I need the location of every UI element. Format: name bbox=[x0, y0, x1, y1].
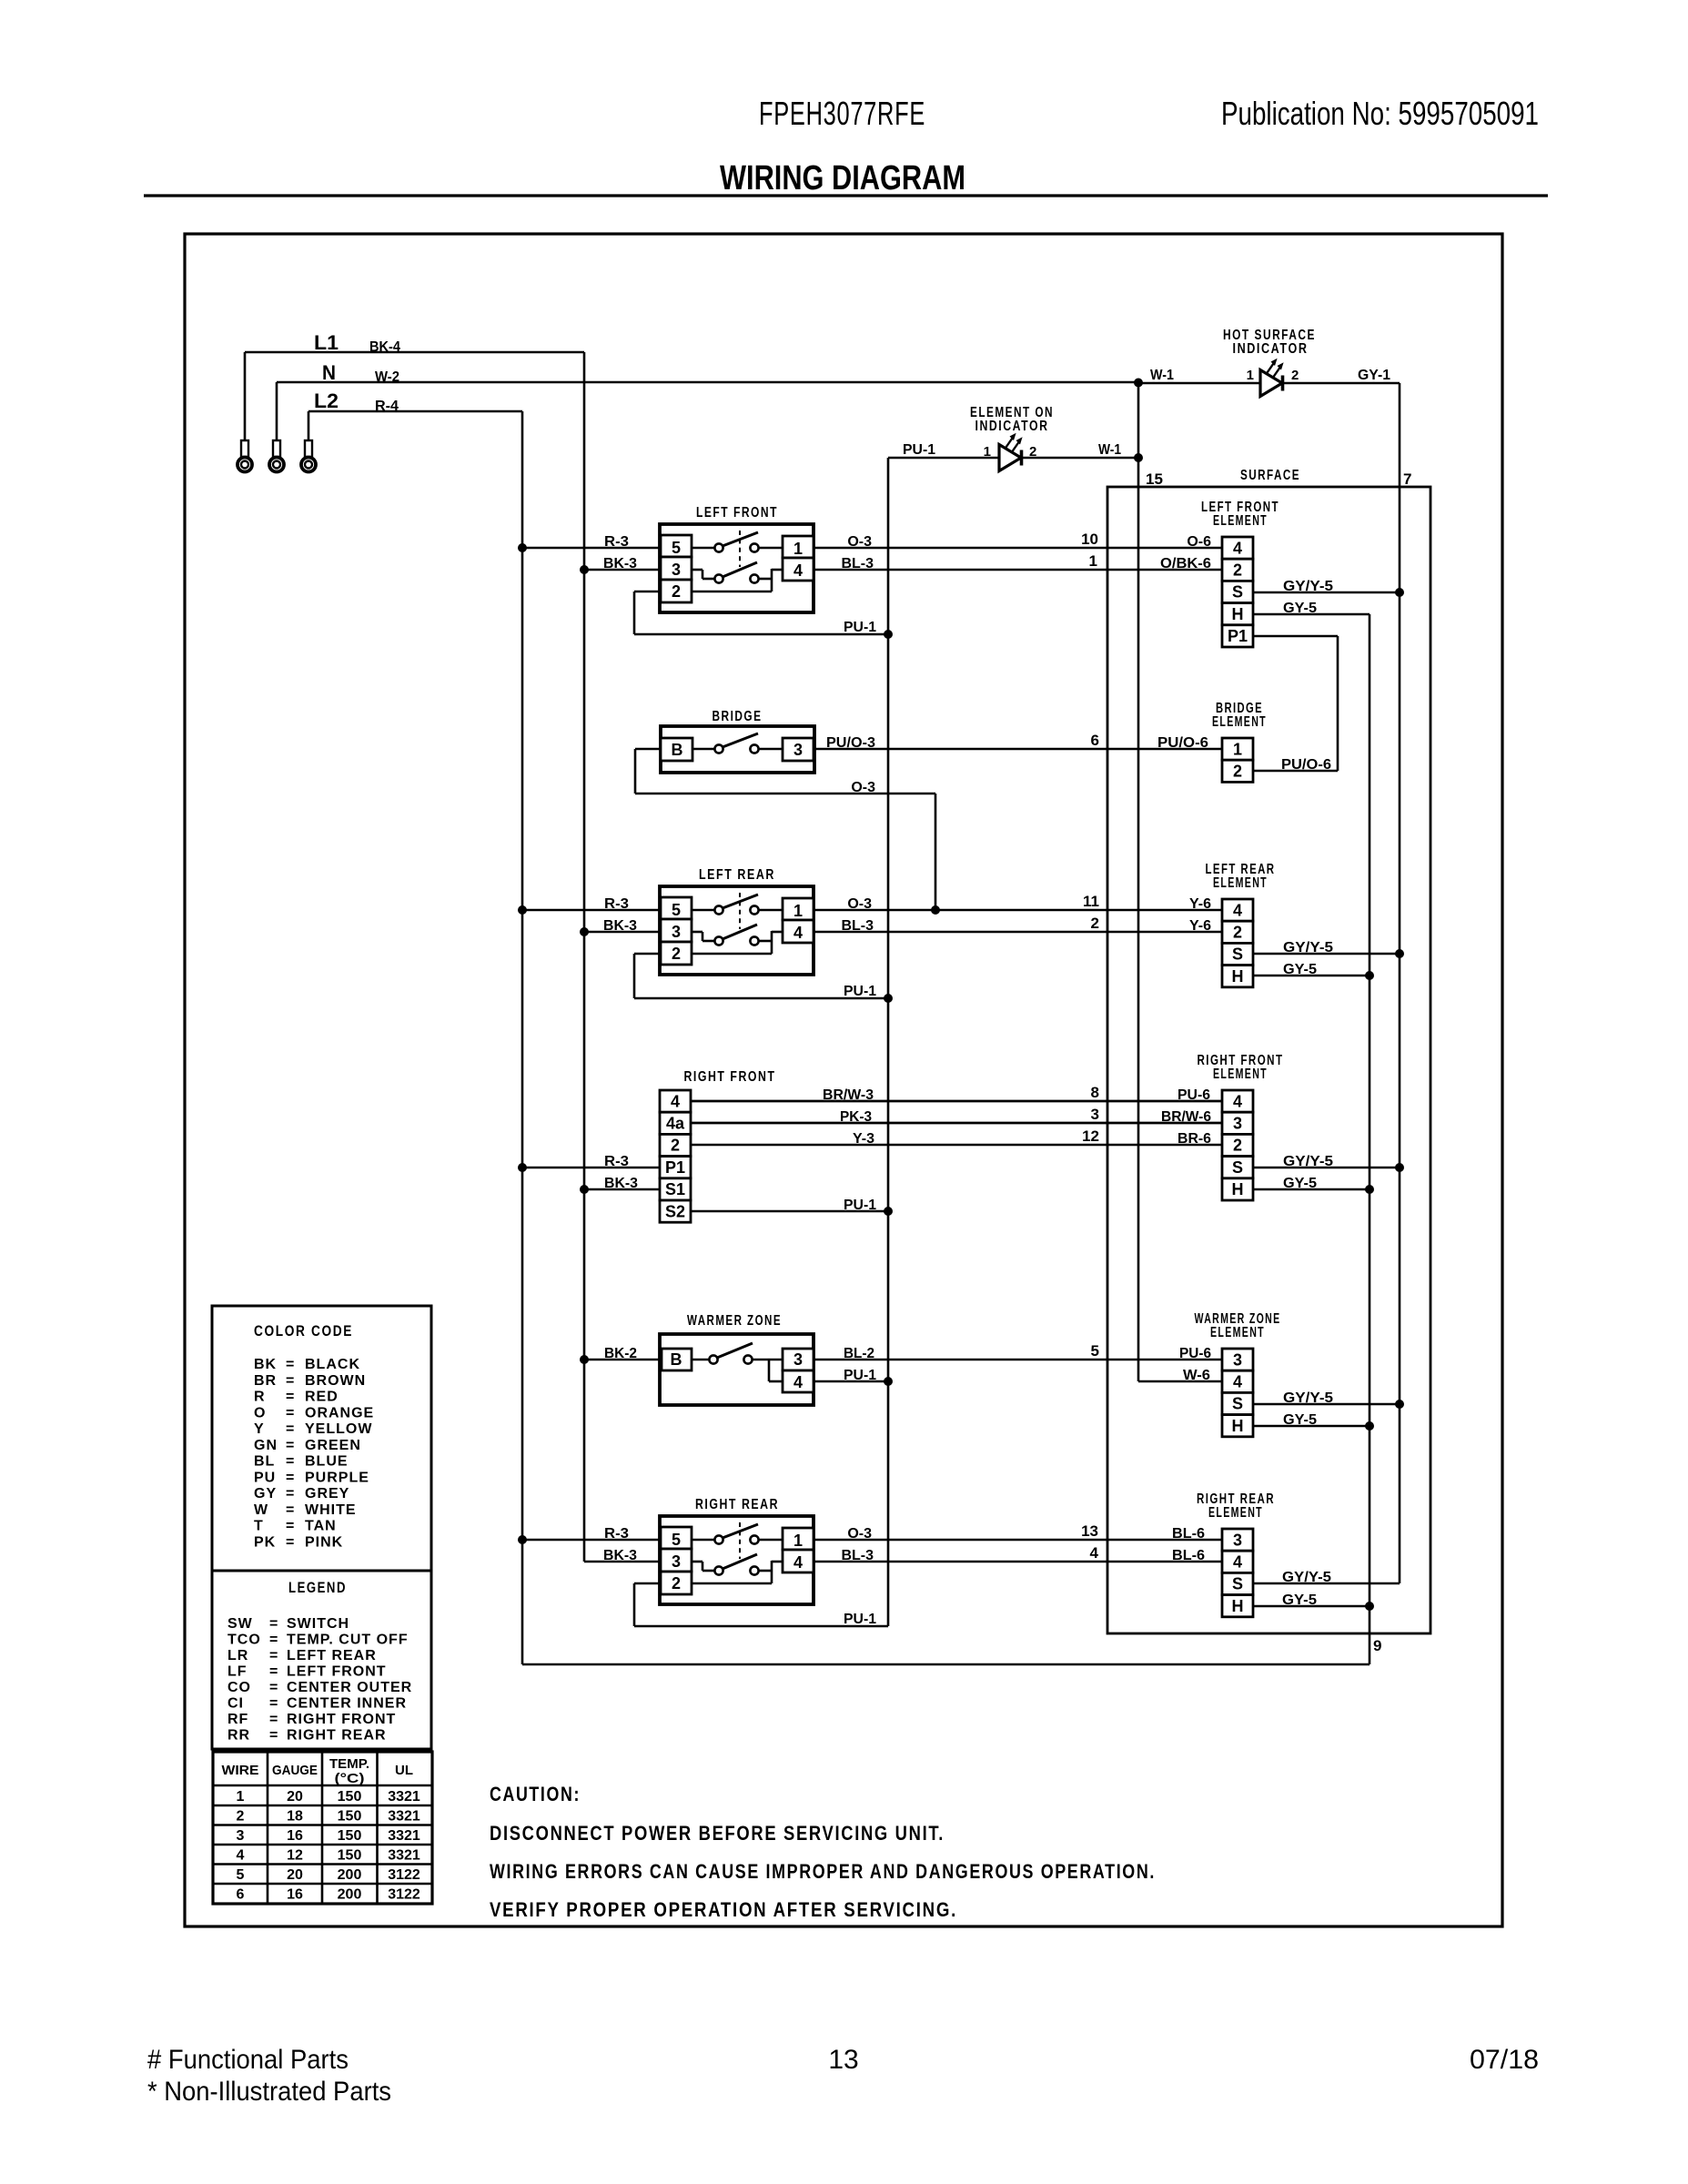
svg-text:3: 3 bbox=[237, 1828, 245, 1844]
svg-text:L2: L2 bbox=[314, 389, 339, 412]
wire PU-1 hook from switch LEFT REAR pin 2 bbox=[634, 954, 888, 999]
wire O-3 output from switch LEFT FRONT pin 1 bbox=[814, 534, 1222, 550]
svg-text:4: 4 bbox=[1233, 1373, 1242, 1391]
svg-text:LEGEND: LEGEND bbox=[288, 1579, 347, 1596]
svg-text:=: = bbox=[269, 1616, 278, 1632]
node L2 label bbox=[314, 389, 339, 412]
svg-text:BK-2: BK-2 bbox=[604, 1346, 637, 1361]
wire table row 5 gauge 20 temp 200 UL 3122 bbox=[237, 1867, 420, 1883]
header publication number bbox=[1221, 95, 1539, 132]
svg-text:GY-5: GY-5 bbox=[1283, 1412, 1317, 1428]
svg-text:BR/W-6: BR/W-6 bbox=[1161, 1109, 1211, 1125]
svg-text:16: 16 bbox=[287, 1828, 303, 1844]
svg-text:BK-4: BK-4 bbox=[369, 339, 400, 355]
pin 12 label right front element bbox=[1082, 1127, 1099, 1145]
wire GY-5 vertical bus bbox=[1369, 614, 1371, 1664]
wire GY-5 from left rear element H bbox=[1253, 962, 1370, 977]
svg-text:PU-1: PU-1 bbox=[903, 442, 935, 458]
wire GY-1 from hot surface indicator bbox=[1283, 368, 1400, 383]
wire L2 R-4 horizontal bbox=[308, 399, 522, 414]
switch WARMER ZONE title bbox=[687, 1313, 782, 1329]
svg-text:UL: UL bbox=[395, 1763, 413, 1778]
svg-text:GY/Y-5: GY/Y-5 bbox=[1283, 1390, 1333, 1406]
svg-text:1: 1 bbox=[793, 540, 803, 558]
pin 1 label left front element bbox=[1089, 552, 1097, 570]
switch RIGHT REAR left terminal cells 5 3 2 bbox=[661, 1527, 692, 1594]
svg-text:13: 13 bbox=[828, 2045, 858, 2075]
svg-text:1: 1 bbox=[1247, 368, 1254, 383]
svg-text:ELEMENT: ELEMENT bbox=[1213, 513, 1268, 529]
color code title bbox=[254, 1322, 353, 1340]
wire PU-1 vertical bus bbox=[887, 458, 890, 1626]
svg-text:ELEMENT: ELEMENT bbox=[1213, 875, 1268, 891]
wire GY-5 from right rear element H bbox=[1253, 1592, 1370, 1608]
svg-text:6: 6 bbox=[237, 1887, 245, 1903]
svg-text:Y-6: Y-6 bbox=[1189, 896, 1211, 912]
svg-text:1: 1 bbox=[984, 444, 991, 460]
legend title bbox=[288, 1579, 347, 1596]
svg-text:4: 4 bbox=[1233, 1092, 1242, 1110]
svg-text:4: 4 bbox=[671, 1092, 680, 1110]
node N label bbox=[322, 361, 336, 384]
element-on indicator pin 1 bbox=[984, 444, 991, 460]
svg-text:LEFT REAR: LEFT REAR bbox=[699, 867, 775, 883]
wire W-1 from element-on indicator to W bus bbox=[1022, 442, 1138, 458]
svg-text:BL-6: BL-6 bbox=[1172, 1548, 1205, 1563]
svg-text:SWITCH: SWITCH bbox=[287, 1616, 349, 1632]
color code entry BK = BLACK bbox=[254, 1357, 360, 1372]
svg-text:=: = bbox=[286, 1502, 294, 1518]
svg-text:3321: 3321 bbox=[388, 1809, 420, 1825]
svg-text:11: 11 bbox=[1083, 893, 1099, 910]
switch BRIDGE body bbox=[661, 726, 814, 773]
svg-text:CAUTION:: CAUTION: bbox=[490, 1783, 581, 1805]
wire R-3 feeder to switch LEFT REAR pin 5 bbox=[522, 896, 661, 912]
switch LEFT REAR pole 1 contacts bbox=[692, 895, 783, 915]
svg-text:RIGHT FRONT: RIGHT FRONT bbox=[684, 1069, 776, 1085]
wire PU/O-6 from bridge element pin 2 bbox=[1253, 757, 1338, 773]
svg-text:FPEH3077RFE: FPEH3077RFE bbox=[759, 95, 925, 132]
svg-text:S1: S1 bbox=[665, 1180, 685, 1198]
wire BR/W-3 from right front switch pin 4 bbox=[691, 1087, 1222, 1103]
svg-text:BLACK: BLACK bbox=[305, 1357, 360, 1372]
element WARMER ZONE terminal cells 3 4 S H bbox=[1222, 1349, 1253, 1437]
junction PU-1 bus at right front S2 bbox=[884, 1207, 893, 1216]
svg-text:P1: P1 bbox=[665, 1158, 685, 1177]
svg-text:BR: BR bbox=[254, 1373, 277, 1389]
svg-text:1: 1 bbox=[793, 1532, 803, 1550]
svg-text:10: 10 bbox=[1081, 531, 1098, 548]
svg-text:2: 2 bbox=[1233, 763, 1242, 781]
junction BK-4 bus at LEFT REAR BK-3 bbox=[580, 927, 589, 936]
svg-text:RED: RED bbox=[305, 1390, 339, 1405]
svg-text:Y: Y bbox=[254, 1421, 265, 1437]
switch WARMER ZONE terminal cells 3 4 bbox=[783, 1349, 814, 1392]
switch LEFT FRONT pole 2 contacts bbox=[692, 562, 783, 591]
svg-text:PU/O-3: PU/O-3 bbox=[826, 735, 875, 751]
svg-text:LEFT FRONT: LEFT FRONT bbox=[696, 505, 778, 521]
svg-text:2: 2 bbox=[1233, 1137, 1242, 1155]
svg-text:5: 5 bbox=[672, 1531, 681, 1549]
svg-text:LEFT REAR: LEFT REAR bbox=[287, 1648, 377, 1663]
color code entry PU = PURPLE bbox=[254, 1470, 369, 1485]
svg-text:R-3: R-3 bbox=[604, 534, 629, 550]
element LEFT FRONT title bbox=[1201, 500, 1279, 529]
node L1 label bbox=[314, 331, 339, 354]
junction PU-1 bus at left front switch hook bbox=[884, 630, 893, 639]
svg-text:Publication No: 5995705091: Publication No: 5995705091 bbox=[1221, 95, 1539, 132]
junction BK-4 bus at warmer zone BK-2 bbox=[580, 1355, 589, 1364]
wire table row 4 gauge 12 temp 150 UL 3321 bbox=[237, 1848, 420, 1864]
wire BL-2 output from warmer zone switch pin 3 bbox=[814, 1346, 1222, 1361]
caution line disconnect power bbox=[490, 1822, 945, 1845]
svg-text:PU: PU bbox=[254, 1470, 276, 1485]
element RIGHT REAR title bbox=[1197, 1491, 1275, 1521]
svg-text:GREY: GREY bbox=[305, 1486, 349, 1501]
wire O-3 hook from bridge switch B to left rear O-3 bbox=[635, 749, 935, 910]
svg-text:BK-3: BK-3 bbox=[604, 1176, 638, 1191]
pin 2 label left rear element bbox=[1091, 915, 1099, 932]
svg-text:3321: 3321 bbox=[388, 1848, 420, 1864]
svg-text:2: 2 bbox=[672, 945, 681, 963]
svg-text:L1: L1 bbox=[314, 331, 339, 354]
wire O/BK-6 label into left front element pin 2 bbox=[1160, 556, 1211, 571]
svg-text:BR/W-3: BR/W-3 bbox=[823, 1087, 874, 1103]
svg-text:=: = bbox=[286, 1470, 294, 1485]
header model number FPEH3077RFE bbox=[759, 95, 925, 132]
svg-text:PU-1: PU-1 bbox=[844, 1198, 876, 1213]
color code box bbox=[212, 1306, 431, 1571]
svg-text:3122: 3122 bbox=[388, 1867, 420, 1883]
svg-text:BL-3: BL-3 bbox=[841, 1548, 874, 1563]
svg-text:H: H bbox=[1232, 967, 1244, 986]
element RIGHT FRONT terminal cells 4 3 2 S H bbox=[1222, 1090, 1253, 1200]
svg-text:PU/O-6: PU/O-6 bbox=[1281, 757, 1331, 773]
wire O-6 label into left front element pin 4 bbox=[1187, 534, 1211, 550]
svg-text:TEMP. CUT OFF: TEMP. CUT OFF bbox=[287, 1633, 409, 1648]
svg-text:3: 3 bbox=[672, 561, 681, 579]
hot surface indicator pin 1 bbox=[1247, 368, 1254, 383]
svg-text:S2: S2 bbox=[665, 1202, 685, 1220]
color code entry BL = BLUE bbox=[254, 1454, 349, 1470]
wire table row 1 gauge 20 temp 150 UL 3321 bbox=[237, 1789, 420, 1805]
footer functional parts note bbox=[147, 2045, 349, 2075]
svg-text:Y-3: Y-3 bbox=[853, 1131, 874, 1147]
wire PU/O-3 output from bridge switch bbox=[814, 735, 1222, 751]
element LEFT FRONT terminal cells 4 2 S H P1 bbox=[1222, 537, 1253, 647]
color code entry BR = BROWN bbox=[254, 1373, 366, 1389]
svg-text:2: 2 bbox=[1291, 368, 1299, 383]
svg-text:1: 1 bbox=[237, 1789, 245, 1805]
wire PU-6 label into right front element pin 4 bbox=[1178, 1087, 1210, 1103]
switch RIGHT REAR pole 1 contacts bbox=[692, 1524, 783, 1544]
pin 3 label right front element bbox=[1091, 1106, 1099, 1123]
switch LEFT REAR body bbox=[660, 886, 814, 975]
svg-text:12: 12 bbox=[287, 1848, 303, 1864]
svg-text:1: 1 bbox=[1233, 740, 1242, 758]
svg-text:3: 3 bbox=[793, 741, 803, 759]
wire GY-5 from left front element H to GY-5 bus top bbox=[1253, 601, 1370, 616]
svg-text:4: 4 bbox=[1233, 539, 1242, 557]
svg-text:GY-5: GY-5 bbox=[1282, 1592, 1317, 1608]
junction R-4 bus at LEFT FRONT R-3 bbox=[518, 543, 527, 552]
wire Y-3 from right front switch pin 2 bbox=[691, 1131, 1222, 1147]
svg-text:W-1: W-1 bbox=[1150, 368, 1174, 383]
terminal L1 ring connector bbox=[238, 352, 252, 472]
wire table header WIRE GAUGE TEMP UL bbox=[222, 1756, 414, 1786]
wire P1 from left front element to bridge element bbox=[1253, 636, 1338, 771]
svg-text:H: H bbox=[1232, 1417, 1244, 1435]
junction GY-5 bus at warmer zone H bbox=[1365, 1421, 1374, 1431]
junction element-on W-1 on W bus bbox=[1134, 453, 1143, 462]
wire R-3 feeder to switch LEFT FRONT pin 5 bbox=[522, 534, 661, 550]
svg-text:B: B bbox=[672, 741, 683, 759]
svg-text:4: 4 bbox=[793, 924, 803, 942]
svg-text:GY-1: GY-1 bbox=[1358, 368, 1390, 383]
svg-text:R: R bbox=[254, 1390, 266, 1405]
svg-text:H: H bbox=[1232, 1180, 1244, 1198]
switch LEFT FRONT right terminal cells 1 4 bbox=[783, 536, 814, 581]
svg-text:O-6: O-6 bbox=[1187, 534, 1211, 550]
surface pin 9 bbox=[1373, 1637, 1381, 1654]
pin 5 label warmer zone element bbox=[1091, 1342, 1099, 1360]
surface pin 15 bbox=[1146, 470, 1163, 488]
svg-text:3: 3 bbox=[793, 1350, 803, 1369]
wire GY/Y-5 from left front element S bbox=[1253, 579, 1400, 594]
svg-text:P1: P1 bbox=[1228, 627, 1248, 645]
svg-text:ELEMENT: ELEMENT bbox=[1208, 1505, 1263, 1521]
svg-text:GAUGE: GAUGE bbox=[272, 1763, 318, 1778]
svg-text:=: = bbox=[269, 1728, 278, 1744]
color code entry GY = GREY bbox=[254, 1486, 349, 1501]
wire GY/Y-5 vertical bus bbox=[1399, 383, 1401, 1583]
svg-text:150: 150 bbox=[338, 1809, 362, 1825]
svg-text:8: 8 bbox=[1091, 1084, 1099, 1101]
wire PU-6 label into warmer zone element pin 3 bbox=[1179, 1346, 1211, 1361]
wire BR-6 label into right front element pin 2 bbox=[1178, 1131, 1211, 1147]
wire BK-3 feeder to right front switch S1 bbox=[584, 1176, 660, 1191]
element LEFT REAR title bbox=[1206, 862, 1276, 891]
color code entry GN = GREEN bbox=[254, 1438, 361, 1453]
wire GY/Y-5 from right front element S bbox=[1253, 1154, 1400, 1169]
svg-text:W: W bbox=[254, 1502, 268, 1518]
svg-text:WIRING ERRORS CAN CAUSE IMPROP: WIRING ERRORS CAN CAUSE IMPROPER AND DAN… bbox=[490, 1860, 1156, 1883]
svg-text:150: 150 bbox=[338, 1789, 362, 1805]
switch LEFT FRONT title bbox=[696, 505, 778, 521]
svg-text:GY-5: GY-5 bbox=[1283, 962, 1317, 977]
switch LEFT FRONT left terminal cells 5 3 2 bbox=[661, 535, 692, 602]
svg-text:RIGHT REAR: RIGHT REAR bbox=[695, 1497, 779, 1512]
switch RIGHT REAR body bbox=[660, 1516, 814, 1604]
svg-text:GY-5: GY-5 bbox=[1283, 1176, 1317, 1191]
svg-text:=: = bbox=[286, 1390, 294, 1405]
svg-text:3: 3 bbox=[1233, 1350, 1242, 1369]
wire PU/O-6 label into bridge element pin 1 bbox=[1157, 735, 1208, 751]
svg-text:O-3: O-3 bbox=[847, 534, 872, 550]
terminal N ring connector bbox=[269, 382, 284, 472]
svg-text:PU-1: PU-1 bbox=[844, 984, 876, 999]
svg-text:WIRE: WIRE bbox=[222, 1763, 259, 1778]
svg-text:150: 150 bbox=[338, 1828, 362, 1844]
svg-text:5: 5 bbox=[237, 1867, 245, 1883]
junction GY/Y-5 bus at right front S bbox=[1395, 1163, 1404, 1172]
svg-text:20: 20 bbox=[287, 1867, 303, 1883]
svg-text:COLOR CODE: COLOR CODE bbox=[254, 1322, 353, 1340]
svg-text:W-2: W-2 bbox=[375, 369, 399, 385]
svg-text:GY/Y-5: GY/Y-5 bbox=[1283, 579, 1333, 594]
svg-text:16: 16 bbox=[287, 1887, 303, 1903]
svg-text:ORANGE: ORANGE bbox=[305, 1405, 374, 1421]
switch WARMER ZONE body bbox=[660, 1334, 814, 1405]
legend entry SW = SWITCH bbox=[227, 1616, 349, 1632]
color code entry Y = YELLOW bbox=[254, 1421, 372, 1437]
wire PU-1 hook from switch RIGHT REAR pin 2 bbox=[634, 1583, 888, 1627]
svg-text:O-3: O-3 bbox=[851, 780, 875, 795]
svg-text:2: 2 bbox=[672, 1574, 681, 1592]
svg-text:BK-3: BK-3 bbox=[603, 1548, 637, 1563]
svg-text:3122: 3122 bbox=[388, 1887, 420, 1903]
svg-text:=: = bbox=[269, 1680, 278, 1695]
color code entry O = ORANGE bbox=[254, 1405, 374, 1421]
wire PK-3 from right front switch pin 4a bbox=[691, 1109, 1222, 1125]
svg-text:R-3: R-3 bbox=[604, 1526, 629, 1542]
svg-text:7: 7 bbox=[1403, 470, 1411, 488]
wire table row 3 gauge 16 temp 150 UL 3321 bbox=[237, 1828, 420, 1844]
svg-text:=: = bbox=[286, 1486, 294, 1501]
svg-text:3: 3 bbox=[1091, 1106, 1099, 1123]
svg-text:PU-1: PU-1 bbox=[844, 1612, 876, 1627]
svg-text:R-3: R-3 bbox=[604, 1154, 629, 1169]
svg-text:200: 200 bbox=[338, 1887, 362, 1903]
svg-text:6: 6 bbox=[1091, 732, 1099, 749]
svg-text:=: = bbox=[269, 1696, 278, 1712]
caution heading bbox=[490, 1783, 581, 1805]
junction PU-1 bus at warmer zone pin 4 bbox=[884, 1377, 893, 1386]
color code entry W = WHITE bbox=[254, 1502, 357, 1518]
svg-text:CENTER INNER: CENTER INNER bbox=[287, 1696, 407, 1712]
svg-text:ELEMENT: ELEMENT bbox=[1213, 1067, 1268, 1082]
wire Y-6 label into left rear element pin 4 bbox=[1189, 896, 1211, 912]
svg-text:O-3: O-3 bbox=[847, 896, 872, 912]
wire GY-5 to R-4 bottom return bbox=[522, 1663, 1370, 1666]
legend entry RF = RIGHT FRONT bbox=[227, 1712, 396, 1727]
switch LEFT FRONT gang dashed link bbox=[739, 531, 741, 567]
wire PU-1 to element-on indicator anode bbox=[888, 442, 999, 458]
pin 4 label right rear element bbox=[1090, 1544, 1099, 1562]
switch BRIDGE terminal cell 3 bbox=[783, 738, 814, 761]
svg-text:B: B bbox=[671, 1350, 682, 1369]
junction GY/Y-5 bus at left rear S bbox=[1395, 949, 1404, 958]
wire PU-1 hook from switch LEFT FRONT pin 2 bbox=[634, 591, 888, 635]
svg-text:GY/Y-5: GY/Y-5 bbox=[1283, 1154, 1333, 1169]
wire L1 BK-4 horizontal bbox=[245, 339, 584, 355]
svg-text:3: 3 bbox=[1233, 1115, 1242, 1133]
svg-text:3321: 3321 bbox=[388, 1789, 420, 1805]
junction GY/Y-5 bus at left front S bbox=[1395, 588, 1404, 597]
svg-text:BLUE: BLUE bbox=[305, 1454, 349, 1470]
svg-text:TAN: TAN bbox=[305, 1519, 337, 1534]
svg-text:2: 2 bbox=[672, 582, 681, 601]
svg-text:=: = bbox=[286, 1454, 294, 1470]
legend entry LF = LEFT FRONT bbox=[227, 1664, 387, 1680]
svg-text:S: S bbox=[1232, 583, 1243, 602]
switch RIGHT REAR pole 2 contacts bbox=[692, 1554, 783, 1583]
LED element-on indicator bbox=[999, 433, 1023, 471]
wire BR/W-6 label into right front element pin 3 bbox=[1161, 1109, 1211, 1125]
svg-text:RR: RR bbox=[227, 1728, 250, 1744]
element RIGHT FRONT title bbox=[1198, 1053, 1284, 1082]
svg-text:PK-3: PK-3 bbox=[840, 1109, 872, 1125]
wire W-1 vertical bus bbox=[1137, 382, 1140, 1381]
svg-text:=: = bbox=[286, 1357, 294, 1372]
svg-text:CI: CI bbox=[227, 1696, 244, 1712]
svg-text:BL-2: BL-2 bbox=[844, 1346, 874, 1361]
switch LEFT REAR right terminal cells 1 4 bbox=[783, 898, 814, 943]
element BRIDGE terminal cells 1 2 bbox=[1222, 738, 1253, 782]
svg-text:H: H bbox=[1232, 1597, 1244, 1615]
svg-text:PU-1: PU-1 bbox=[844, 1368, 876, 1383]
switch BRIDGE contacts bbox=[692, 733, 783, 753]
svg-text:2: 2 bbox=[1233, 924, 1242, 942]
title WIRING DIAGRAM bbox=[720, 159, 965, 197]
wire R-4 vertical bus bbox=[521, 411, 524, 1664]
svg-text:PK: PK bbox=[254, 1534, 276, 1550]
switch LEFT REAR title bbox=[699, 867, 775, 883]
hot surface indicator title bbox=[1223, 328, 1316, 357]
svg-text:=: = bbox=[269, 1712, 278, 1727]
junction GY-5 bus at right front H bbox=[1365, 1185, 1374, 1194]
wire BL-3 output from switch LEFT REAR pin 4 bbox=[814, 918, 1222, 934]
svg-text:GY/Y-5: GY/Y-5 bbox=[1282, 1570, 1331, 1585]
svg-text:PURPLE: PURPLE bbox=[305, 1470, 369, 1485]
svg-text:4: 4 bbox=[1233, 1553, 1242, 1572]
svg-text:RF: RF bbox=[227, 1712, 248, 1727]
svg-text:* Non-Illustrated Parts: * Non-Illustrated Parts bbox=[147, 2077, 391, 2107]
legend entry CI = CENTER INNER bbox=[227, 1696, 407, 1712]
junction W-2 at W bus top bbox=[1134, 379, 1143, 388]
svg-text:GY/Y-5: GY/Y-5 bbox=[1283, 940, 1333, 955]
svg-text:W-6: W-6 bbox=[1183, 1368, 1210, 1383]
switch RIGHT FRONT title bbox=[684, 1069, 776, 1085]
wire GY/Y-5 from warmer zone element S bbox=[1253, 1390, 1400, 1406]
pin 8 label right front element bbox=[1091, 1084, 1099, 1101]
svg-text:5: 5 bbox=[672, 539, 681, 557]
legend entry CO = CENTER OUTER bbox=[227, 1680, 412, 1695]
svg-text:S: S bbox=[1232, 1395, 1243, 1413]
svg-text:12: 12 bbox=[1082, 1127, 1099, 1145]
wire BL-3 output from switch LEFT FRONT pin 4 bbox=[814, 556, 1222, 571]
caution line verify operation bbox=[490, 1898, 957, 1921]
svg-text:=: = bbox=[286, 1438, 294, 1453]
svg-text:1: 1 bbox=[793, 902, 803, 920]
svg-text:WHITE: WHITE bbox=[305, 1502, 357, 1518]
svg-text:R-3: R-3 bbox=[604, 896, 629, 912]
svg-text:3: 3 bbox=[672, 1552, 681, 1571]
svg-text:S: S bbox=[1232, 1575, 1243, 1593]
element-on indicator pin 2 bbox=[1029, 444, 1036, 460]
svg-text:=: = bbox=[286, 1373, 294, 1389]
pin 11 label left rear element bbox=[1083, 893, 1099, 910]
svg-text:BK: BK bbox=[254, 1357, 277, 1372]
svg-text:PU-1: PU-1 bbox=[844, 620, 876, 635]
svg-text:3: 3 bbox=[672, 923, 681, 941]
wire BK-4 vertical bus bbox=[583, 352, 586, 1562]
svg-text:RIGHT FRONT: RIGHT FRONT bbox=[287, 1712, 396, 1727]
switch LEFT REAR gang dashed link bbox=[739, 893, 741, 929]
svg-text:4: 4 bbox=[1090, 1544, 1099, 1562]
svg-text:CENTER OUTER: CENTER OUTER bbox=[287, 1680, 412, 1695]
svg-text:H: H bbox=[1232, 605, 1244, 623]
